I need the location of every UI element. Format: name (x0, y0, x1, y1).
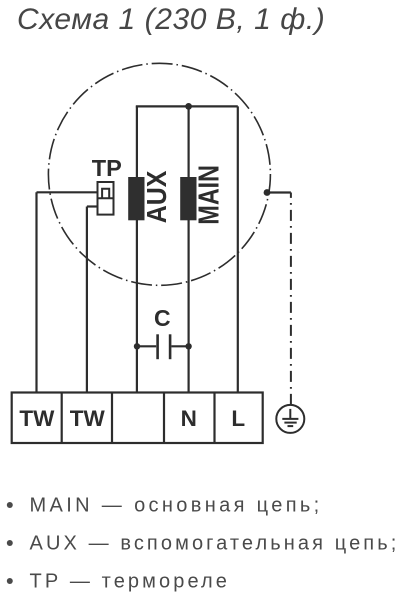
svg-text:TW: TW (19, 406, 55, 431)
svg-text:MAIN: MAIN (194, 165, 226, 225)
svg-text:ТР — термореле: ТР — термореле (30, 571, 231, 593)
svg-text:N: N (181, 406, 197, 431)
svg-text:MAIN — основная цепь;: MAIN — основная цепь; (30, 495, 323, 517)
svg-text:ТР: ТР (92, 155, 122, 181)
svg-text:TW: TW (70, 406, 106, 431)
svg-text:AUX — вспомогательная цепь;: AUX — вспомогательная цепь; (30, 533, 398, 555)
svg-text:C: C (154, 305, 171, 331)
svg-text:Схема 1 (230 В, 1 ф.): Схема 1 (230 В, 1 ф.) (17, 3, 325, 36)
svg-text:AUX: AUX (141, 170, 172, 223)
svg-text:L: L (231, 406, 245, 431)
